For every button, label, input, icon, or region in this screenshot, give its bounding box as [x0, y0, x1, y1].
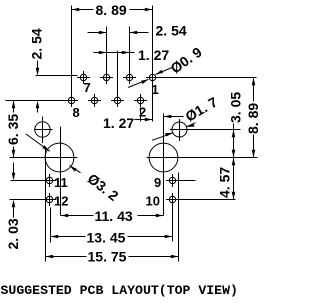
svg-text:SUGGESTED PCB LAYOUT(TOP VIEW): SUGGESTED PCB LAYOUT(TOP VIEW) — [1, 283, 238, 298]
svg-text:10: 10 — [146, 194, 160, 209]
svg-text:15. 75: 15. 75 — [88, 249, 127, 265]
svg-text:1: 1 — [152, 82, 159, 97]
svg-text:1. 27: 1. 27 — [103, 115, 134, 131]
svg-text:2: 2 — [139, 105, 146, 120]
svg-text:3. 05: 3. 05 — [228, 92, 244, 123]
svg-text:4. 57: 4. 57 — [217, 167, 233, 198]
svg-text:6. 35: 6. 35 — [5, 114, 21, 145]
svg-text:8: 8 — [73, 105, 80, 120]
svg-text:8. 89: 8. 89 — [96, 2, 127, 18]
svg-text:13. 45: 13. 45 — [87, 229, 126, 245]
svg-text:9: 9 — [154, 175, 161, 190]
svg-text:7: 7 — [84, 80, 91, 95]
svg-text:2. 54: 2. 54 — [156, 23, 187, 39]
svg-text:2. 03: 2. 03 — [5, 218, 21, 249]
svg-text:11: 11 — [54, 175, 68, 190]
svg-text:1. 27: 1. 27 — [138, 47, 169, 63]
svg-text:11. 43: 11. 43 — [95, 208, 133, 224]
svg-text:8. 89: 8. 89 — [245, 103, 260, 134]
svg-text:2. 54: 2. 54 — [29, 28, 45, 59]
svg-text:12: 12 — [54, 194, 68, 209]
